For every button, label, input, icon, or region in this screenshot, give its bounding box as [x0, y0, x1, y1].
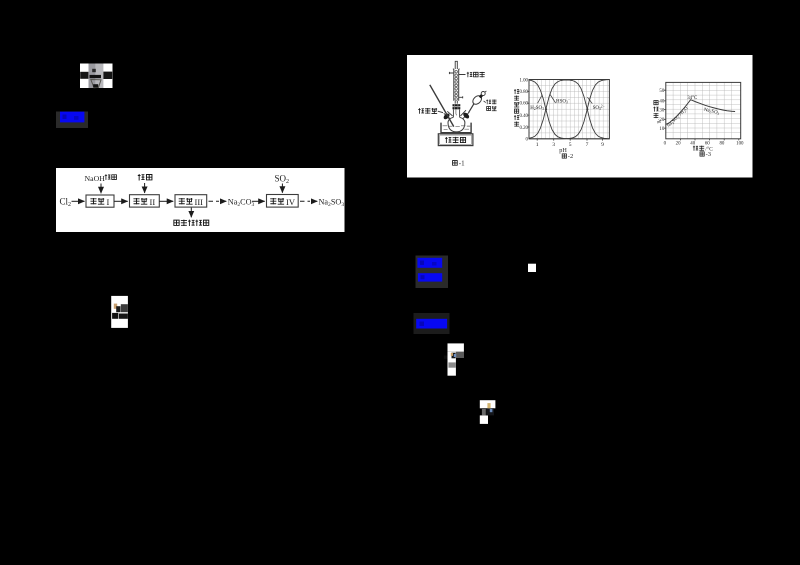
- svg-text:H2SO3: H2SO3: [530, 106, 544, 111]
- condenser label pointer: [459, 74, 466, 76]
- inline formula fragment A: [111, 296, 128, 328]
- step III box: [175, 195, 207, 207]
- arrow step III down to hydrazine product: [190, 208, 192, 218]
- dashed wire step IV to Na2SO3: [300, 200, 310, 202]
- funnel label pointer: [484, 101, 486, 103]
- svg-text:100: 100: [736, 141, 744, 146]
- solubility curve: [666, 100, 735, 125]
- grid: [529, 80, 609, 139]
- small inner tube below neck: [455, 110, 458, 116]
- H2SO3 label pointer: [538, 96, 542, 104]
- svg-text:-3: -3: [706, 151, 711, 158]
- y axis title (mole fraction): [514, 89, 519, 94]
- answer link 4: [414, 313, 450, 334]
- svg-text:HSO3−: HSO3−: [556, 98, 570, 104]
- dashed wire step III to Na2CO3: [209, 200, 220, 202]
- dropping funnel label line1: [486, 100, 491, 105]
- right side neck tube: [460, 110, 469, 118]
- svg-text:/g: /g: [656, 120, 661, 124]
- fig-2 pH distribution graph: [514, 78, 609, 160]
- flask center neck: [453, 110, 459, 118]
- flowchart panel: [56, 168, 345, 232]
- HSO3- curve: [529, 80, 609, 139]
- svg-text:0.20: 0.20: [519, 126, 528, 131]
- svg-text:-1: -1: [459, 160, 465, 168]
- svg-text:Na2CO3: Na2CO3: [228, 197, 255, 208]
- svg-text:40: 40: [659, 100, 664, 105]
- fig-1 CJK labels: [418, 72, 496, 168]
- plot frame: [666, 82, 741, 138]
- svg-text:1: 1: [536, 142, 539, 148]
- fig-1 caption: [453, 161, 458, 166]
- stirrer label: [445, 137, 451, 143]
- svg-text:0.60: 0.60: [519, 101, 528, 106]
- condenser water nubs: [449, 72, 462, 98]
- svg-text:0.80: 0.80: [519, 90, 528, 95]
- answer link 2: [416, 256, 449, 289]
- urea label: [138, 174, 145, 180]
- svg-text:40: 40: [690, 141, 695, 146]
- wire arrow Cl2 to step I: [72, 200, 85, 202]
- svg-text:0.40: 0.40: [519, 114, 528, 119]
- step II box: [130, 195, 160, 207]
- fig-3 solubility graph: [653, 82, 744, 158]
- svg-text:7: 7: [586, 142, 589, 148]
- neck clamp (black bands): [453, 104, 461, 106]
- svg-text:I: I: [107, 197, 110, 207]
- thermometer label pointer: [438, 111, 443, 112]
- small white checkbox square: [528, 264, 536, 272]
- fig-1 apparatus: [430, 61, 487, 145]
- svg-text:20: 20: [676, 141, 681, 146]
- stirrer box: [438, 134, 473, 146]
- y tick marks: [664, 90, 739, 140]
- svg-text:-2: -2: [568, 153, 573, 160]
- SO3 2- curve: [529, 80, 609, 139]
- wire step I to step II: [114, 200, 128, 202]
- svg-text:III: III: [195, 197, 204, 207]
- x tick labels: [664, 141, 744, 146]
- grid: [666, 82, 741, 138]
- answer link 1 (highlighted blue label): [56, 112, 88, 129]
- dropping funnel stem: [469, 104, 474, 113]
- svg-text:9: 9: [601, 142, 604, 148]
- y tick labels: [659, 89, 664, 132]
- svg-text:NaOH: NaOH: [85, 174, 106, 183]
- svg-text:1.00: 1.00: [519, 78, 528, 83]
- arrow urea down into step II: [144, 183, 146, 193]
- condenser bottom tube: [455, 101, 457, 104]
- inline formula image (equation fragment with arrow): [80, 64, 113, 89]
- arrow NaOH down into step I: [100, 184, 102, 194]
- svg-text:50: 50: [659, 89, 664, 94]
- thermometer: [430, 85, 454, 127]
- fig2 axis tick marks: [527, 91, 602, 140]
- condenser jacket: [453, 69, 460, 101]
- flask body: [448, 117, 465, 132]
- answer link 3: [418, 273, 442, 281]
- step I box: [86, 195, 114, 207]
- svg-text:34°C: 34°C: [687, 96, 697, 101]
- inline formula fragment C: [480, 400, 496, 424]
- svg-text:30: 30: [659, 108, 664, 113]
- wire step II to step III: [159, 200, 173, 202]
- right clamp on funnel stem: [462, 112, 470, 120]
- HSO3- curve label + pointer: [550, 94, 556, 103]
- svg-text:80: 80: [719, 141, 724, 146]
- svg-text:Na2SO3: Na2SO3: [319, 197, 345, 208]
- SO3 2- curve label + pointer: [587, 97, 592, 103]
- funnel stopcock (black): [479, 94, 483, 98]
- svg-text:IV: IV: [286, 197, 296, 207]
- svg-text:3: 3: [552, 142, 555, 148]
- condenser inner bulbs: [455, 71, 458, 101]
- dropping funnel bulb: [471, 94, 483, 106]
- fig-3 caption: [700, 152, 704, 156]
- x axis title (temperature): [693, 146, 698, 151]
- inline formula fragment B: [444, 343, 464, 375]
- dropping funnel label line2: [487, 107, 491, 111]
- svg-text:pH: pH: [559, 147, 567, 154]
- arrow SO2 down into step IV: [281, 184, 283, 193]
- condenser label: [467, 72, 473, 77]
- condenser top tube: [455, 61, 458, 69]
- funnel top opening: [481, 92, 485, 96]
- fig-2 caption: [562, 154, 566, 158]
- svg-text:10: 10: [659, 127, 664, 132]
- y tick labels: [519, 78, 528, 142]
- svg-text:5: 5: [569, 142, 572, 148]
- step IV box: [267, 195, 299, 208]
- thermometer label: [418, 108, 424, 114]
- left side neck tube: [444, 111, 453, 118]
- curve crossing dots: [545, 108, 547, 110]
- H2SO3 curve: [529, 80, 609, 139]
- water surface marks: [443, 125, 471, 127]
- x tick labels: [536, 142, 604, 148]
- svg-text:II: II: [150, 197, 156, 207]
- figures panel: [407, 55, 753, 178]
- wire Na2CO3 to step IV: [252, 200, 265, 202]
- plot frame: [529, 80, 609, 139]
- left clamp on thermometer: [443, 112, 451, 120]
- hydrazine hydrate solution label: [174, 220, 179, 225]
- water bath vessel: [441, 123, 471, 133]
- y axis title (solubility): [654, 100, 658, 104]
